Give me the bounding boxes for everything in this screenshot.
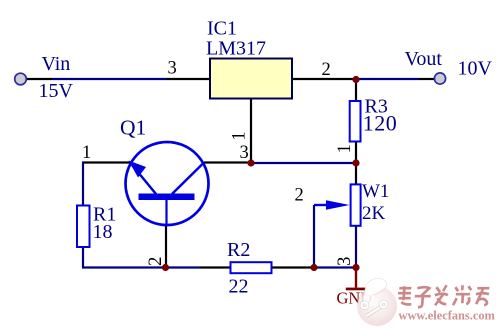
svg-text:Vin: Vin bbox=[42, 53, 71, 75]
pin of Vin terminal bbox=[26, 78, 52, 80]
regulator IC1 LM317 body bbox=[210, 59, 292, 99]
svg-text:22: 22 bbox=[229, 276, 249, 298]
wire bottom right bbox=[314, 266, 356, 268]
wire left vertical below R1 bbox=[82, 248, 84, 268]
resistor R1 bbox=[77, 206, 90, 248]
wiper arrow of W1 bbox=[314, 200, 350, 210]
svg-text:1: 1 bbox=[230, 131, 250, 140]
wire W1 wiper vertical bbox=[313, 205, 315, 268]
wire Vin to IC1 bbox=[52, 78, 167, 80]
pin 3 of Q1 wire bbox=[204, 161, 251, 163]
junction node bottom W1 bbox=[352, 264, 359, 271]
ground bbox=[337, 268, 373, 308]
svg-text:2: 2 bbox=[295, 186, 304, 206]
svg-text:1: 1 bbox=[82, 143, 91, 163]
svg-text:2: 2 bbox=[146, 257, 166, 266]
potentiometer W1 bbox=[351, 184, 361, 225]
svg-text:Q1: Q1 bbox=[120, 115, 146, 139]
resistor R3 bbox=[350, 101, 361, 142]
pin 2 of IC1 bbox=[292, 78, 356, 80]
svg-text:R2: R2 bbox=[227, 239, 250, 261]
pin 1 of R2 stub bbox=[200, 266, 230, 268]
svg-text:Vout: Vout bbox=[405, 48, 443, 70]
pin 1 of R3 stub bbox=[355, 142, 357, 163]
transistor Q1 bbox=[126, 142, 209, 225]
svg-text:2: 2 bbox=[322, 60, 331, 80]
junction node OUT bbox=[352, 76, 359, 83]
pin 3 of IC1 bbox=[167, 78, 210, 80]
svg-text:LM317: LM317 bbox=[206, 37, 266, 59]
wire left vertical above R1 bbox=[82, 162, 84, 205]
svg-text:3: 3 bbox=[240, 143, 249, 163]
pin 3 of W1 stub bbox=[355, 226, 357, 268]
svg-text:3: 3 bbox=[335, 257, 355, 266]
junction node ADJ right bbox=[352, 159, 359, 166]
svg-text:10V: 10V bbox=[458, 58, 493, 80]
svg-text:1: 1 bbox=[335, 144, 355, 153]
pin 2 of Q1 vertical bbox=[165, 225, 167, 268]
svg-text:W1: W1 bbox=[362, 181, 389, 202]
svg-text:3: 3 bbox=[168, 59, 177, 79]
wire bottom left bbox=[82, 266, 200, 268]
junction node ADJ left bbox=[247, 159, 254, 166]
wire node OUT to Vout terminal bbox=[356, 78, 419, 80]
svg-text:2K: 2K bbox=[362, 203, 386, 224]
svg-text:IC1: IC1 bbox=[207, 17, 237, 39]
pin 2 of R3 stub bbox=[355, 80, 357, 101]
pin 1 of Q1 wire bbox=[82, 161, 130, 163]
junction node bottom wiper bbox=[310, 264, 317, 271]
pin 2 of R2 stub bbox=[272, 266, 314, 268]
svg-text:15V: 15V bbox=[39, 80, 74, 102]
svg-text:18: 18 bbox=[93, 221, 113, 243]
terminal Vin bbox=[15, 73, 27, 85]
junction node bottom Q1 bbox=[162, 264, 169, 271]
terminal Vout bbox=[434, 73, 445, 84]
wire ADJ node horizontal bbox=[251, 162, 356, 164]
svg-text:www.elecfans.com: www.elecfans.com bbox=[399, 309, 496, 323]
pin 1 of W1 stub bbox=[355, 163, 357, 184]
watermark Chinese characters bbox=[397, 285, 491, 308]
pin 1 of IC1 vertical bbox=[250, 99, 252, 163]
svg-text:120: 120 bbox=[363, 111, 398, 136]
pin of Vout terminal bbox=[419, 78, 435, 80]
watermark logo bbox=[357, 278, 397, 326]
resistor R2 bbox=[231, 262, 272, 273]
